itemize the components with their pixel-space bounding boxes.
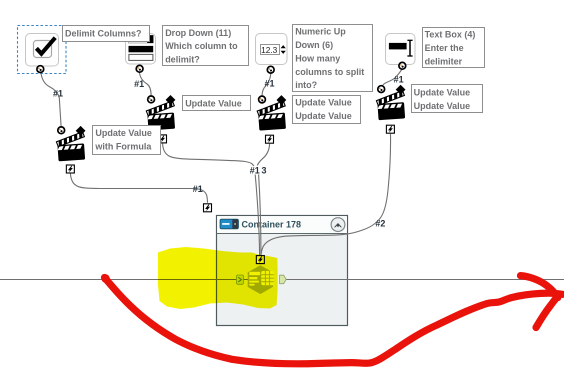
svg-text:#1: #1 [394, 74, 404, 84]
svg-text:with Formula: with Formula [94, 142, 152, 152]
svg-text:#1: #1 [53, 88, 63, 98]
svg-text:Which column to: Which column to [165, 41, 238, 51]
svg-text:delimit?: delimit? [165, 55, 200, 65]
svg-text:Enter the: Enter the [425, 43, 464, 53]
svg-text:Update Value: Update Value [414, 87, 471, 97]
svg-text:Container 178: Container 178 [242, 220, 302, 230]
svg-text:#1 3: #1 3 [250, 166, 267, 176]
svg-text:Update Value: Update Value [414, 101, 471, 111]
svg-text:How many: How many [295, 53, 340, 63]
svg-text:Text Box (4): Text Box (4) [425, 30, 476, 40]
svg-text:Update Value: Update Value [295, 98, 352, 108]
svg-text:#2: #2 [375, 218, 385, 228]
svg-text:delimiter: delimiter [425, 56, 463, 66]
svg-text:Down (6): Down (6) [295, 40, 333, 50]
svg-text:columns to split: columns to split [295, 67, 364, 77]
svg-text:Numeric Up: Numeric Up [295, 27, 346, 37]
svg-text:Update Value: Update Value [295, 111, 352, 121]
svg-text:Update Value: Update Value [185, 98, 242, 108]
svg-text:Update Value: Update Value [95, 128, 152, 138]
svg-text:Drop Down (11): Drop Down (11) [165, 28, 231, 38]
svg-text:12.3: 12.3 [261, 45, 278, 55]
svg-text:#1: #1 [134, 79, 144, 89]
svg-text:#1: #1 [265, 79, 275, 89]
svg-text:#1: #1 [193, 184, 203, 194]
svg-text:Delimit Columns?: Delimit Columns? [65, 29, 142, 39]
svg-text:into?: into? [295, 80, 317, 90]
